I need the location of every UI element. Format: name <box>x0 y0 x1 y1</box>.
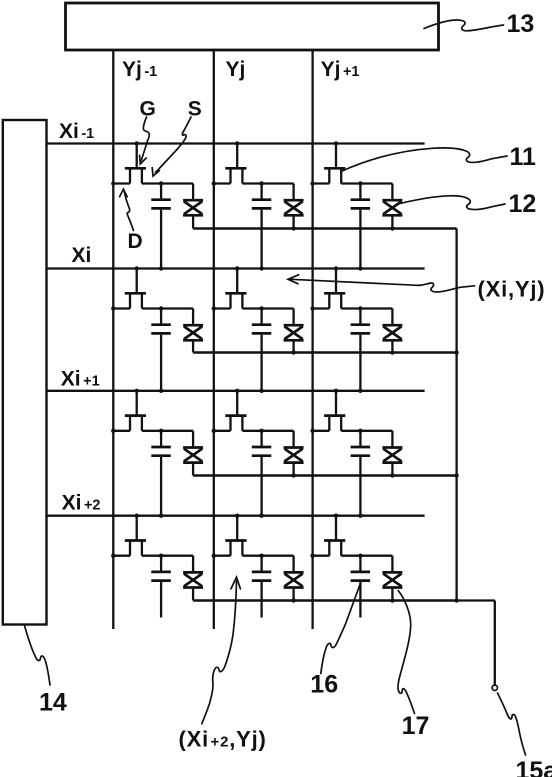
pixel node wire at cell (Xi-1,Yj-1): drain link to column, source link to cap and LC <box>111 181 193 185</box>
liquid crystal element 12 at cell (Xi-1,Yj) <box>284 184 304 231</box>
column data line Yj-1 <box>112 49 114 629</box>
svg-text:16: 16 <box>310 670 338 698</box>
reference numeral 13 <box>507 10 535 38</box>
label Xi <box>72 244 92 267</box>
TFT transistor 11 at cell (Xi+1,Yj+1): gate stub, gate bar, source/drain legs <box>324 389 345 431</box>
label (Xi+2,Yj) <box>179 727 267 752</box>
reference numeral 14 <box>39 689 67 717</box>
TFT transistor 11 at cell (Xi+2,Yj): gate stub, gate bar, source/drain legs <box>225 514 246 556</box>
row scan line Xi <box>47 267 425 269</box>
svg-text:G: G <box>140 98 156 121</box>
output wire from row Xi+2 rail to terminal 15a <box>457 601 495 686</box>
storage capacitor 16 at cell (Xi-1,Yj-1) <box>151 184 171 271</box>
storage capacitor 16 at cell (Xi,Yj) <box>252 309 271 393</box>
liquid crystal element 12 at cell (Xi,Yj+1) <box>382 309 402 355</box>
X driver box 14 <box>3 120 47 625</box>
svg-text:D: D <box>128 230 143 253</box>
svg-text:Yj: Yj <box>226 58 246 81</box>
row scan line Xi-1 <box>47 142 425 144</box>
label Yj <box>226 58 246 81</box>
TFT transistor 11 at cell (Xi-1,Yj+1): gate stub, gate bar, source/drain legs <box>324 141 345 183</box>
reference numeral 15a <box>516 757 552 777</box>
TFT transistor 11 at cell (Xi+2,Yj-1): gate stub, gate bar, source/drain legs <box>125 514 146 556</box>
TFT transistor 11 at cell (Xi,Yj+1): gate stub, gate bar, source/drain legs <box>324 266 345 308</box>
pixel node wire at cell (Xi+2,Yj-1): drain link to column, source link to cap and LC <box>111 554 193 558</box>
right common bus wire <box>454 229 458 603</box>
svg-text:(Xi,Yj): (Xi,Yj) <box>478 277 546 302</box>
pixel node wire at cell (Xi+1,Yj+1): drain link to column, source link to cap and LC <box>310 429 392 433</box>
leader arrow to (Xi,Yj) <box>288 275 475 292</box>
svg-text:14: 14 <box>39 689 67 717</box>
label G (gate) <box>140 98 156 121</box>
svg-text:15a: 15a <box>516 757 552 777</box>
leader line to 15a <box>498 693 526 755</box>
column data line Yj+1 <box>311 49 313 629</box>
storage capacitor 16 at cell (Xi+1,Yj-1) <box>151 431 171 518</box>
svg-text:13: 13 <box>507 10 535 38</box>
leader arrow to (Xi+2,Yj) <box>202 577 241 724</box>
storage capacitor 16 at cell (Xi,Yj+1) <box>351 309 371 393</box>
label Xi+2 <box>62 492 101 515</box>
reference numeral 11 <box>510 143 537 171</box>
label Xi-1 <box>59 120 94 143</box>
liquid crystal element 12 at cell (Xi-1,Yj+1) <box>382 184 402 231</box>
leader line to 14 <box>25 626 51 686</box>
Y driver box 13 <box>66 3 439 50</box>
pixel node wire at cell (Xi,Yj-1): drain link to column, source link to cap and LC <box>111 306 193 310</box>
pixel node wire at cell (Xi,Yj+1): drain link to column, source link to cap and LC <box>310 306 392 310</box>
pixel node wire at cell (Xi-1,Yj): drain link to column, source link to cap and LC <box>212 181 294 185</box>
storage capacitor 16 at cell (Xi-1,Yj+1) <box>351 184 371 271</box>
label S (source) <box>188 98 202 121</box>
svg-text:11: 11 <box>510 143 537 171</box>
label D (drain) <box>128 230 143 253</box>
leader line to 17 <box>398 591 415 714</box>
label Yj-1 <box>122 58 157 81</box>
label (Xi,Yj) <box>478 277 546 302</box>
liquid crystal element 12 at cell (Xi+2,Yj-1) <box>183 556 203 601</box>
svg-text:12: 12 <box>509 190 537 218</box>
pixel node wire at cell (Xi+2,Yj): drain link to column, source link to cap and LC <box>212 554 294 558</box>
pixel node wire at cell (Xi-1,Yj+1): drain link to column, source link to cap and LC <box>310 181 392 185</box>
svg-text:Xi: Xi <box>72 244 92 267</box>
leader line to 16 <box>321 585 360 674</box>
label Yj+1 <box>321 58 360 81</box>
pixel node wire at cell (Xi+2,Yj+1): drain link to column, source link to cap and LC <box>310 554 392 558</box>
storage capacitor 16 at cell (Xi+2,Yj-1) <box>151 556 171 618</box>
pixel node wire at cell (Xi+1,Yj): drain link to column, source link to cap and LC <box>212 429 294 433</box>
reference numeral 17 <box>402 712 430 740</box>
TFT transistor 11 at cell (Xi-1,Yj): gate stub, gate bar, source/drain legs <box>225 141 246 183</box>
common counter-electrode rail of row Xi-1 <box>193 227 457 230</box>
label Xi+1 <box>61 368 100 391</box>
TFT transistor 11 at cell (Xi+1,Yj): gate stub, gate bar, source/drain legs <box>225 389 246 431</box>
storage capacitor 16 at cell (Xi,Yj-1) <box>151 309 171 393</box>
TFT transistor 11 at cell (Xi-1,Yj-1): gate stub, gate bar, source/drain legs <box>125 141 146 183</box>
TFT transistor 11 at cell (Xi,Yj): gate stub, gate bar, source/drain legs <box>225 266 246 308</box>
common counter-electrode rail of row Xi <box>193 351 457 354</box>
pixel node wire at cell (Xi,Yj): drain link to column, source link to cap and LC <box>212 306 294 310</box>
liquid crystal element 12 at cell (Xi+2,Yj+1) <box>382 556 402 603</box>
liquid crystal element 12 at cell (Xi+1,Yj+1) <box>382 431 402 478</box>
terminal 15a (open circle) <box>492 685 497 690</box>
svg-text:S: S <box>188 98 202 121</box>
liquid crystal element 12 at cell (Xi+1,Yj-1) <box>183 431 203 476</box>
TFT transistor 11 at cell (Xi,Yj-1): gate stub, gate bar, source/drain legs <box>125 266 146 308</box>
liquid crystal element 12 at cell (Xi,Yj) <box>284 309 304 355</box>
liquid crystal element 12 at cell (Xi+2,Yj) <box>284 556 304 603</box>
liquid crystal element 12 at cell (Xi-1,Yj-1) <box>183 184 203 229</box>
pixel node wire at cell (Xi+1,Yj-1): drain link to column, source link to cap and LC <box>111 429 193 433</box>
TFT transistor 11 at cell (Xi+2,Yj+1): gate stub, gate bar, source/drain legs <box>324 514 345 556</box>
leader line to 11 <box>341 148 507 172</box>
TFT transistor 11 at cell (Xi+1,Yj-1): gate stub, gate bar, source/drain legs <box>125 389 146 431</box>
leader arrow G <box>140 117 150 164</box>
reference numeral 12 <box>509 190 537 218</box>
storage capacitor 16 at cell (Xi+2,Yj+1) <box>351 556 371 618</box>
row scan line Xi+2 <box>47 515 425 517</box>
common counter-electrode rail of row Xi+2 <box>193 599 457 602</box>
leader line to 13 <box>424 20 504 31</box>
storage capacitor 16 at cell (Xi+1,Yj+1) <box>351 431 371 518</box>
common counter-electrode rail of row Xi+1 <box>193 474 457 477</box>
column data line Yj <box>213 49 215 629</box>
leader line to 12 <box>399 196 506 210</box>
reference numeral 16 <box>310 670 338 698</box>
storage capacitor 16 at cell (Xi+2,Yj) <box>252 556 271 618</box>
row scan line Xi+1 <box>47 390 425 392</box>
storage capacitor 16 at cell (Xi-1,Yj) <box>252 184 271 271</box>
svg-text:17: 17 <box>402 712 430 740</box>
leader arrow D <box>120 189 134 230</box>
liquid crystal element 12 at cell (Xi,Yj-1) <box>183 309 203 353</box>
liquid crystal element 12 at cell (Xi+1,Yj) <box>284 431 304 478</box>
storage capacitor 16 at cell (Xi+1,Yj) <box>252 431 271 518</box>
leader arrow S <box>152 117 191 176</box>
